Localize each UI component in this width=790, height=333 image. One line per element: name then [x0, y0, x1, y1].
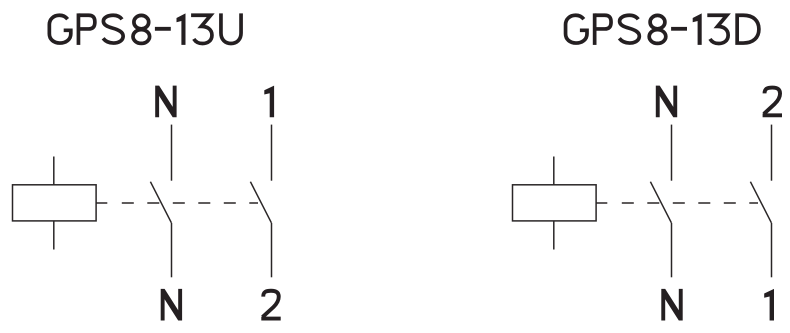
contact S4 bottom lead (terminal 1) [771, 223, 773, 277]
terminal label 2 (bottom, S2) [261, 291, 280, 319]
contact S2 top lead (terminal 1) [271, 125, 273, 181]
coil K1 (GPS8-13U) [13, 185, 97, 221]
coil K1 top terminal lead [53, 157, 55, 185]
terminal label 1 (bottom, S4) [764, 289, 774, 321]
contact S3 top lead (terminal N) [671, 125, 673, 181]
coil K2 bottom terminal lead [553, 221, 555, 250]
terminal label N (bottom, S3) [661, 289, 682, 321]
contact S2 blade [250, 182, 271, 223]
terminal label N (bottom, S1) [161, 289, 182, 321]
contact S3 blade [650, 182, 671, 223]
contact S2 bottom lead (terminal 2) [271, 223, 273, 277]
terminal label 2 (top, S4) [763, 88, 782, 116]
terminal label 1 (top, S2) [264, 86, 274, 118]
contact S3 bottom lead (terminal N) [671, 223, 673, 277]
coil K2 top terminal lead [553, 157, 555, 185]
contact S1 blade [150, 182, 171, 223]
contact S4 blade [750, 182, 771, 223]
mechanical linkage (dashed) from coil K2 to contacts [622, 202, 758, 204]
mechanical linkage (dashed) from coil K1 to contacts [122, 202, 258, 204]
coil K2 (GPS8-13D) [513, 185, 597, 221]
terminal label N (top, S1) [155, 86, 176, 118]
coil K1 bottom terminal lead [53, 221, 55, 250]
contact S1 bottom lead (terminal N) [171, 223, 173, 277]
mechanical linkage stub from coil K2 [596, 202, 607, 204]
terminal label N (top, S3) [656, 86, 677, 118]
contact S1 top lead (terminal N) [171, 125, 173, 181]
title GPS8-13U [49, 13, 241, 45]
mechanical linkage stub from coil K1 [96, 202, 107, 204]
title GPS8-13D [566, 13, 759, 45]
contact S4 top lead (terminal 2) [771, 125, 773, 181]
